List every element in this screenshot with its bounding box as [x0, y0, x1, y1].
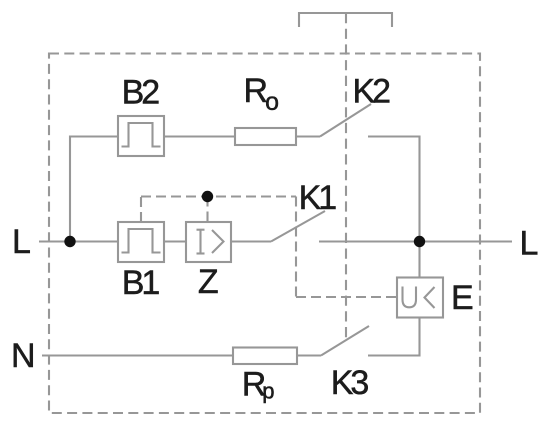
wire N to Rp — [42, 354, 233, 356]
wire K1 right contact to right terminal — [319, 240, 512, 242]
resistor Rp — [233, 348, 297, 365]
svg-text:K3: K3 — [331, 364, 369, 402]
wire K3 right contact up to E coil bottom — [368, 318, 420, 356]
switch K2 blade — [320, 104, 371, 137]
svg-text:B2: B2 — [122, 74, 160, 112]
wire L left lead — [39, 240, 118, 242]
wire branch up from L node — [70, 137, 118, 242]
trip linkage dashed to E — [296, 296, 397, 298]
trip linkage dashed down run — [295, 197, 297, 298]
svg-text:Ro: Ro — [244, 72, 279, 116]
breaker element B2 — [118, 116, 164, 156]
wire B2 to Ro — [164, 135, 235, 137]
manual actuator bracket — [299, 13, 392, 27]
wire Ro to K2 — [296, 135, 320, 137]
trip linkage dashed from B1 top — [140, 197, 142, 223]
node L junction — [64, 236, 75, 247]
undervoltage release E — [397, 278, 443, 318]
svg-text:K1: K1 — [299, 179, 337, 217]
wire Z to K1 — [231, 240, 271, 242]
switch K1 blade — [271, 211, 325, 242]
wire K2 right contact down to node — [368, 137, 420, 242]
svg-text:K2: K2 — [353, 72, 391, 110]
svg-text:E: E — [451, 279, 474, 317]
svg-text:N: N — [11, 337, 36, 375]
breaker element B1 — [118, 222, 164, 262]
svg-text:Z: Z — [198, 263, 219, 301]
actuator linkage dashed line — [345, 13, 347, 340]
wire node to E coil top — [418, 242, 420, 278]
svg-text:Rp: Rp — [242, 366, 275, 404]
trip linkage dashed from Z top — [206, 197, 208, 223]
resistor Ro — [235, 128, 296, 145]
node trip linkage junction — [202, 191, 213, 202]
node right junction — [414, 236, 425, 247]
svg-text:L: L — [12, 223, 31, 261]
enclosure dashed border — [49, 54, 480, 414]
wire Rp to K3 — [297, 354, 321, 356]
trip linkage dashed horizontal run — [141, 195, 296, 197]
svg-text:B1: B1 — [122, 264, 160, 302]
wire B1 to Z — [164, 240, 186, 242]
svg-text:L: L — [520, 225, 539, 263]
overcurrent release Z — [186, 222, 231, 262]
switch K3 blade — [321, 326, 369, 356]
